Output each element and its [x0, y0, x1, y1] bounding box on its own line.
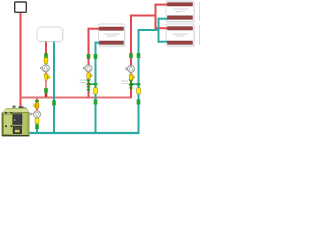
svg-text:(комната 3): (комната 3) [107, 36, 117, 38]
svg-text:(комната 1): (комната 1) [175, 11, 185, 13]
svg-text:клапан: клапан [80, 82, 86, 84]
svg-text:(комната 2): (комната 2) [175, 36, 185, 38]
svg-text:клапан: клапан [122, 83, 128, 85]
